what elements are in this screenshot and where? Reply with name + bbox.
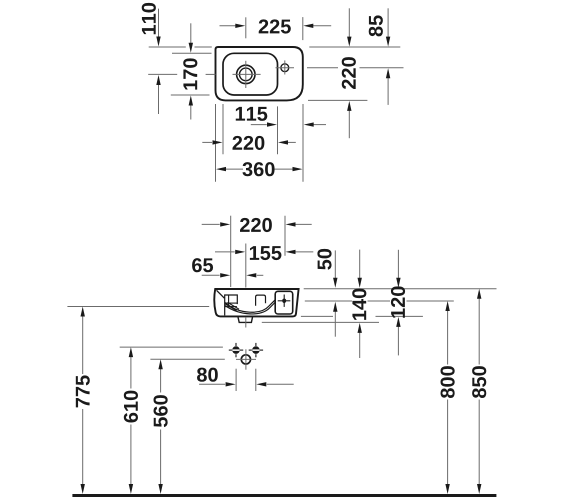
tap hole center dot — [282, 299, 286, 304]
dim 775 line & arrows — [82, 316, 84, 374]
extension line bowl left below — [222, 104, 224, 154]
dim 225 extension line right (basin right edge) — [302, 17, 304, 40]
dim 140 stems & arrows — [359, 250, 361, 279]
label 85 — [369, 15, 383, 36]
extension line basin left edge below — [215, 104, 217, 182]
bowl top edge extension left — [172, 52, 212, 54]
bowl sweep curve lower — [225, 302, 276, 314]
drain bottom extension right — [262, 321, 379, 323]
rim inner diagonal top-left — [217, 290, 225, 298]
bowl recess vertical tick — [228, 295, 230, 307]
tap centerline extension right (lower view) — [305, 300, 352, 302]
extension line basin right edge below — [302, 104, 304, 182]
dim 120 stems & arrows — [397, 250, 399, 279]
tap hole circle — [281, 64, 289, 72]
dim 610 line & arrows — [130, 357, 132, 389]
drain centerline horizontal — [233, 73, 261, 75]
dim 220 bottom: arrows — [202, 141, 212, 143]
wall mounting hole left — [229, 343, 243, 357]
dim 225 right arrow — [312, 25, 331, 27]
tap hole cross vertical — [283, 295, 285, 307]
label 170 — [183, 58, 197, 89]
dim 225 extension line left (drain center) — [245, 17, 247, 38]
drain tailpiece — [238, 317, 253, 323]
dim 220 lower: extension line left — [230, 216, 232, 287]
drain inner circle — [240, 68, 253, 81]
dim 80 arrows — [199, 383, 225, 385]
dim 155/65 extension line (drain axis) — [245, 244, 247, 288]
wall drain outlet cross horizontal — [236, 358, 256, 360]
bowl left recess rectangle — [225, 295, 238, 315]
label 155 — [250, 246, 282, 260]
bowl hatch diagonal 1 — [225, 304, 237, 311]
label 560 — [154, 395, 168, 427]
dim 220/155 extension line right (tap axis) — [284, 216, 286, 256]
drain outer circle — [237, 65, 255, 83]
wall mounting hole right — [249, 343, 263, 357]
dim 225 left arrow — [220, 25, 237, 27]
label 220 right — [342, 57, 356, 89]
washbasin outer rim — [216, 47, 303, 100]
610 reference line — [120, 346, 223, 348]
wall drain outlet circle — [241, 355, 250, 364]
label 50 — [317, 249, 331, 270]
drain centerline vertical — [245, 61, 247, 88]
tap platform panel — [275, 291, 293, 314]
dim 50 stems & arrows — [334, 250, 336, 278]
bowl sweep curve upper — [225, 300, 275, 312]
dim 110 dimension line & arrows — [158, 9, 160, 38]
label 220 bottom — [233, 136, 265, 150]
label 850 — [472, 366, 486, 398]
tap hole cross horizontal — [278, 300, 291, 302]
label 800 — [441, 366, 455, 398]
dim 800 line & arrows — [447, 311, 449, 365]
label 225 — [259, 19, 291, 33]
basin top edge extension left — [149, 46, 186, 48]
dim 80 extension lines — [235, 369, 237, 391]
overflow slot — [256, 295, 266, 306]
washbasin inner bowl — [223, 53, 278, 95]
label 360 — [242, 162, 274, 176]
bowl hatch diagonal 2 — [228, 302, 239, 309]
ground line — [72, 494, 496, 497]
tap centerline extension right — [307, 67, 338, 69]
basin bottom extension right — [301, 315, 333, 317]
dim 85: dimension line & arrows — [387, 8, 389, 37]
dim 220 right: dimension line & arrows — [348, 8, 350, 37]
dim 155 arrows — [215, 251, 235, 253]
dim 115: arrows — [251, 124, 267, 126]
dim 850 line & arrows — [478, 298, 480, 364]
label 775 — [76, 375, 90, 407]
dim 360: dimension line & arrows — [226, 168, 243, 170]
bowl bottom edge extension left — [171, 94, 210, 96]
label 115 — [236, 107, 268, 121]
label 220 lower — [240, 218, 272, 232]
label 80 — [197, 368, 218, 382]
label 140 — [352, 289, 366, 320]
bowl recess shelf line 1 — [225, 302, 238, 304]
560 reference line — [150, 358, 224, 360]
wall drain outlet cross vertical — [245, 349, 247, 369]
drain centerline extension left — [148, 73, 177, 75]
dim 65 arrows — [202, 274, 220, 276]
basin top edge extension right — [309, 46, 400, 48]
bowl recess shelf line 2 — [225, 306, 237, 308]
dim 170 dimension line & arrows — [190, 23, 192, 44]
tap hole centerline vertical — [284, 60, 286, 74]
basin top extension right (lower view) — [304, 288, 497, 290]
dim 220 lower arrows — [202, 223, 220, 225]
label 120 — [391, 286, 405, 317]
775 reference line — [67, 306, 209, 308]
label 610 — [124, 391, 138, 423]
extension line bowl right below — [277, 106, 279, 154]
dim 560 line & arrows — [160, 369, 162, 393]
tap hole centerline horizontal — [276, 67, 295, 69]
drain tailpiece centerline — [245, 317, 247, 328]
label 110 — [142, 3, 156, 34]
basin body outline — [214, 289, 298, 316]
basin bottom edge extension right — [308, 99, 367, 101]
label 65 — [192, 258, 213, 272]
